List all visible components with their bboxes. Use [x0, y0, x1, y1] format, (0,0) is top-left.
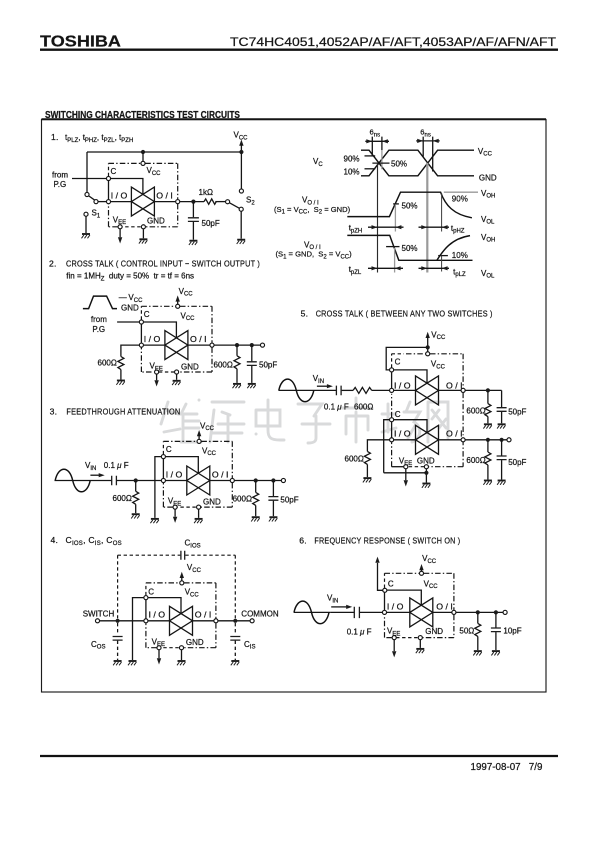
- junction at COS branch: [116, 619, 120, 623]
- wire: I/O pin to gate (circuit 2): [144, 344, 165, 346]
- wire: GND pin down (circuit 2): [176, 374, 178, 380]
- watermark char 市: [342, 398, 372, 442]
- ground below 50ohm resistor: [473, 651, 482, 655]
- pin O/I (circuit 3): [230, 478, 234, 482]
- wire: S2 lower contact to ground: [240, 212, 242, 239]
- watermark char 场: [382, 402, 420, 442]
- sine source (circuit 3): [55, 469, 93, 492]
- wire: VEE pin down (circuit 6): [393, 640, 395, 651]
- pin GND (circuit 5): [424, 465, 428, 469]
- svg-text:50%: 50%: [391, 159, 407, 168]
- VEE arrow (circuit 4): [157, 658, 161, 664]
- sine source (circuit 6): [294, 601, 331, 624]
- wire: O/I to COMMON terminal: [218, 620, 250, 622]
- transmission gate U5B: [416, 425, 439, 454]
- transmission gate U2: [165, 331, 188, 360]
- svg-text:2.: 2.: [49, 259, 57, 269]
- wire: I/O 2 to 600ohm input branch: [367, 440, 389, 452]
- wire: O/I 2 to output terminal: [465, 439, 506, 441]
- resistor 600 ohm shunt (circuit 3): [133, 481, 139, 514]
- ground below GND pin: [139, 239, 148, 243]
- svg-text:COS: COS: [91, 640, 105, 651]
- svg-text:FREQUENCY RESPONSE ( SWITCH ON: FREQUENCY RESPONSE ( SWITCH ON ): [314, 536, 460, 546]
- svg-text:6ns: 6ns: [370, 128, 381, 139]
- svg-text:(S1 = GND, S2 = VCC): (S1 = GND, S2 = VCC): [276, 250, 353, 261]
- svg-text:C: C: [111, 167, 117, 176]
- svg-text:GND: GND: [147, 217, 165, 226]
- svg-text:from: from: [52, 171, 68, 180]
- IC box (dash-dot outline) circuit 5: [392, 354, 464, 467]
- svg-text:90%: 90%: [344, 154, 360, 163]
- ground below load resistor: [233, 384, 242, 388]
- tpZL measure: [349, 265, 403, 276]
- capacitor 50pF (circuit 3): [268, 481, 278, 517]
- wire: O/I 1 to loads: [465, 389, 501, 391]
- wire: control C1 to gate 1: [394, 370, 427, 383]
- svg-text:VCC: VCC: [234, 131, 249, 142]
- svg-text:O / I: O / I: [446, 430, 463, 439]
- wire: C pin to ground rail (circuit 3): [155, 457, 161, 518]
- svg-text:FEEDTHROUGH ATTENUATION: FEEDTHROUGH ATTENUATION: [66, 407, 180, 417]
- wire: rail to VCC pin: [142, 152, 144, 161]
- svg-text:VEE: VEE: [150, 362, 163, 373]
- svg-text:VOL: VOL: [481, 269, 495, 280]
- svg-text:VCC: VCC: [424, 579, 439, 590]
- wire: O/I to output node: [180, 201, 204, 203]
- wire: sine to coupling cap (circuit 6): [331, 611, 355, 613]
- pin VEE (circuit 2): [155, 370, 159, 374]
- svg-text:GND: GND: [121, 304, 139, 313]
- pin GND (circuit 2): [175, 370, 179, 374]
- pin VCC (circuit 2): [176, 304, 180, 308]
- transmission gate U1: [131, 187, 154, 216]
- pin VEE (circuit 4): [157, 646, 161, 650]
- resistor 600 ohm (input side): [118, 357, 124, 370]
- wire: GND pin down (circuit 6): [419, 640, 421, 648]
- watermark char 库: [210, 402, 244, 442]
- ground below S1: [82, 234, 91, 238]
- svg-text:VIN: VIN: [327, 594, 338, 605]
- svg-text:VEE: VEE: [113, 215, 126, 226]
- wire: C2 to ground link: [384, 420, 390, 473]
- wire: I/O pin to gate: [111, 201, 132, 203]
- svg-text:P.G: P.G: [54, 180, 67, 189]
- wire: SWITCH terminal to I/O: [100, 620, 144, 622]
- wire: GND pin down (circuit 4): [181, 650, 183, 660]
- pin C (circuit 6): [383, 588, 387, 592]
- resistor 600 ohm series (circuit 5): [353, 387, 372, 393]
- VEE arrow (circuit 5): [404, 480, 408, 486]
- svg-text:10%: 10%: [344, 168, 360, 177]
- svg-text:VCC: VCC: [202, 446, 217, 457]
- pin I/O (circuit 6): [382, 610, 386, 614]
- svg-text:I / O: I / O: [149, 611, 166, 620]
- 6ns rise time marker (first edge): [365, 128, 389, 170]
- svg-text:O / I: O / I: [446, 381, 463, 390]
- wire: S1 lower contact to ground: [85, 217, 87, 234]
- svg-text:SWITCH: SWITCH: [83, 610, 115, 619]
- gray VOH reference line (middle): [444, 191, 478, 193]
- capacitor 50pF load 1 (circuit 5): [497, 390, 507, 423]
- transmission gate U5A: [416, 376, 439, 405]
- VCC terminal (circuit 2): [176, 287, 194, 304]
- outer dashed measurement loop: [118, 555, 236, 634]
- svg-text:10%: 10%: [452, 251, 468, 260]
- 50% tick and label (middle rise): [393, 202, 417, 211]
- pin VCC (circuit 6): [419, 571, 423, 575]
- svg-text:0.1 μ F: 0.1 μ F: [347, 628, 372, 637]
- switch S1: [84, 192, 101, 219]
- VCC terminal (circuit 4): [180, 563, 202, 581]
- pin I/O (circuit 1): [106, 200, 110, 204]
- wire: I/O pin to gate (circuit 4): [148, 620, 169, 622]
- pin VCC (circuit 1): [141, 161, 145, 165]
- pin VCC (circuit 5): [426, 352, 430, 356]
- svg-text:CROSS TALK ( BETWEEN ANY TWO S: CROSS TALK ( BETWEEN ANY TWO SWITCHES ): [316, 308, 493, 318]
- capacitor 50pF (circuit 2): [247, 345, 257, 383]
- pin O/I (circuit 1): [176, 200, 180, 204]
- control arrow (switch on, C high): [375, 557, 379, 563]
- ground below load resistor (circuit 3): [251, 517, 260, 521]
- junction VCC to C link: [426, 345, 430, 349]
- svg-text:VIN: VIN: [85, 461, 96, 472]
- pin C1 (circuit 5): [390, 368, 394, 372]
- wire: VCC link to C pin 1: [386, 347, 428, 370]
- svg-text:VEE: VEE: [399, 456, 412, 467]
- svg-text:600Ω: 600Ω: [466, 406, 485, 415]
- svg-text:50pF: 50pF: [508, 458, 526, 467]
- VCC terminal (circuit 6): [419, 554, 436, 571]
- IC box (dash-dot outline) circuit 3: [163, 441, 232, 507]
- ground below shunt resistor (circuit 5): [363, 478, 372, 482]
- ground below GND pin (circuit 5): [422, 484, 431, 488]
- junction at VCC pin tap: [141, 150, 145, 154]
- pin C (circuit 4): [144, 596, 148, 600]
- transmission gate U4: [170, 606, 193, 635]
- svg-text:0.1 μ F: 0.1 μ F: [324, 402, 349, 411]
- svg-text:5.: 5.: [301, 308, 309, 318]
- output terminal (circuit 3): [281, 478, 285, 482]
- svg-text:VCC: VCC: [179, 287, 194, 298]
- svg-text:fin = 1MHZ duty = 50% tr = t: fin = 1MHZ duty = 50% tr = tf = 6ns: [66, 272, 194, 283]
- capacitor 0.1uF (circuit 5): [336, 386, 341, 396]
- watermark char 子: [298, 404, 330, 443]
- ground below C wire (circuit 4): [128, 661, 137, 665]
- capacitor COS: [113, 637, 123, 641]
- wire: resistor to ground (input side): [120, 370, 122, 380]
- svg-text:50%: 50%: [402, 202, 418, 211]
- pin GND (circuit 4): [179, 646, 183, 650]
- svg-text:tpHZ: tpHZ: [451, 224, 465, 235]
- junction at 50ohm load: [476, 610, 480, 614]
- ground below COS: [113, 661, 122, 665]
- svg-text:600Ω: 600Ω: [466, 456, 485, 465]
- wire: from P.G to C pin: [72, 178, 106, 180]
- wire: O/I to output terminal (circuit 6): [456, 611, 503, 613]
- junction at 50pF load 2: [500, 438, 504, 442]
- junction at CIS branch: [233, 619, 237, 623]
- pin VCC (circuit 3): [197, 439, 201, 443]
- junction GND / C2 link: [424, 471, 428, 475]
- wire: S1 pole to I/O pin: [98, 201, 106, 203]
- svg-text:6.: 6.: [299, 536, 307, 546]
- wire: gate to O/I 1 pin: [439, 389, 461, 391]
- svg-text:GND: GND: [181, 362, 199, 371]
- pin VEE (circuit 3): [173, 505, 177, 509]
- wire: resistor to I/O 1 (circuit 5): [372, 389, 390, 391]
- svg-text:I / O: I / O: [111, 192, 128, 201]
- wire: VEE pin to negative supply arrow: [119, 229, 121, 237]
- svg-text:VEE: VEE: [168, 497, 181, 508]
- svg-text:VCC: VCC: [185, 588, 200, 599]
- svg-text:S1: S1: [92, 209, 101, 220]
- output terminal (circuit 5): [507, 438, 511, 442]
- svg-text:GND: GND: [425, 627, 443, 636]
- pin I/O (circuit 2): [139, 343, 143, 347]
- svg-text:600Ω: 600Ω: [214, 360, 233, 369]
- svg-text:tpLZ: tpLZ: [453, 267, 466, 278]
- IC box (dash-dot outline) circuit 2: [141, 306, 212, 372]
- svg-text:I / O: I / O: [387, 602, 404, 611]
- VEE arrow (circuit 2): [154, 380, 158, 386]
- output terminal (circuit 2): [260, 343, 264, 347]
- pin C (circuit 1): [106, 176, 110, 180]
- wire: O/I to output terminal: [214, 344, 260, 346]
- wire: resistor to S2 pole: [215, 201, 225, 203]
- pin O/I (circuit 2): [210, 343, 214, 347]
- wire: control from C to gate (circuit 6): [387, 590, 422, 605]
- resistor 50 ohm load (circuit 6): [475, 612, 481, 650]
- ground below GND pin (circuit 4): [177, 661, 186, 665]
- footer rule: [40, 755, 558, 757]
- pin C (circuit 3): [161, 455, 165, 459]
- junction at 600ohm shunt: [134, 478, 138, 482]
- svg-text:COMMON: COMMON: [241, 610, 279, 619]
- capacitor 50pF load 2 (circuit 5): [497, 440, 507, 480]
- svg-text:O / I: O / I: [436, 602, 453, 611]
- svg-text:6ns: 6ns: [420, 128, 431, 139]
- svg-text:— VCC: — VCC: [119, 293, 143, 304]
- black vertical at recovery 10%: [441, 256, 443, 272]
- pin O/I (circuit 6): [452, 610, 456, 614]
- svg-text:C: C: [144, 310, 150, 319]
- wire: rail down to S1 upper contact: [86, 152, 88, 192]
- pin VCC (circuit 4): [180, 581, 184, 585]
- wire: control C2 to gate 2: [394, 420, 427, 433]
- wire: rail down to S2 upper contact: [240, 152, 242, 189]
- svg-text:4.: 4.: [51, 535, 59, 545]
- svg-text:GND: GND: [203, 497, 221, 506]
- IC box (dash-dot outline) circuit 4: [146, 583, 216, 648]
- wire: VEE pin down (circuit 2): [156, 374, 158, 380]
- wire: control from C to gate: [111, 179, 143, 195]
- vertical reference line at first input 50% crossing: [377, 163, 379, 272]
- svg-text:VOH: VOH: [481, 233, 495, 244]
- wire: COS to ground: [117, 641, 119, 660]
- svg-text:P.G: P.G: [92, 325, 105, 334]
- wire: gate to O/I pin: [154, 201, 175, 203]
- svg-text:10pF: 10pF: [503, 626, 521, 635]
- svg-text:I / O: I / O: [394, 430, 411, 439]
- svg-text:O / I: O / I: [156, 192, 173, 201]
- COMMON terminal: [250, 619, 254, 623]
- svg-text:VCC: VCC: [431, 360, 446, 371]
- VEE arrow (negative supply): [118, 237, 122, 243]
- wire: shunt resistor to ground (circuit 5): [366, 464, 368, 477]
- svg-text:1997-08-07 7/9: 1997-08-07 7/9: [471, 762, 543, 773]
- wire: cap to I/O pin (circuit 6): [360, 611, 382, 613]
- svg-text:TOSHIBA: TOSHIBA: [40, 34, 121, 51]
- svg-text:600Ω: 600Ω: [113, 494, 132, 503]
- wire: GND pin down: [142, 229, 144, 238]
- pin GND (circuit 3): [197, 505, 201, 509]
- wire: GND pin to ground: [425, 469, 427, 483]
- wire: VEE pin down (circuit 4): [158, 650, 160, 658]
- watermark char 维: [161, 400, 201, 442]
- input waveform VC with X transitions: [361, 150, 474, 176]
- VIN arrow (circuit 5): [317, 384, 333, 388]
- svg-text:600Ω: 600Ω: [354, 402, 373, 411]
- capacitor CIS: [230, 637, 240, 641]
- junction output node: [191, 200, 195, 204]
- VCC terminal (circuit 5): [426, 330, 446, 351]
- capacitor CIOS (in top dashed line): [181, 551, 185, 560]
- VIN arrow (circuit 3): [90, 473, 104, 477]
- IC box (dash-dot outline) circuit 6: [385, 573, 454, 637]
- svg-text:600Ω: 600Ω: [233, 494, 252, 503]
- pulse generator input label "from P.G": [52, 171, 68, 190]
- wire: VCC rail circuit 1: [87, 151, 241, 153]
- pin VEE (circuit 6): [392, 636, 396, 640]
- wire: gate to O/I pin (circuit 4): [193, 620, 214, 622]
- transmission gate U6: [410, 598, 433, 627]
- junction at 600ohm load: [235, 343, 239, 347]
- VCC terminal (circuit 1): [234, 131, 249, 153]
- SWITCH terminal: [95, 619, 99, 623]
- wire: C pin up to control-high arrow: [378, 563, 383, 590]
- svg-text:VCC: VCC: [181, 311, 196, 322]
- svg-text:600Ω: 600Ω: [98, 358, 117, 367]
- junction at 600ohm load 1: [486, 388, 490, 392]
- svg-text:CIOS, CIS, COS: CIOS, CIS, COS: [66, 535, 122, 547]
- pin I/O (circuit 4): [144, 619, 148, 623]
- resistor 600 ohm (load): [234, 345, 240, 383]
- svg-text:VC: VC: [313, 157, 323, 168]
- ground below GND pin (circuit 3): [194, 519, 203, 523]
- svg-text:50pF: 50pF: [259, 360, 277, 369]
- wire: control from C to gate (circuit 4): [148, 598, 181, 614]
- wire: VEE pin down (circuit 5): [405, 469, 407, 480]
- svg-text:VCC: VCC: [187, 563, 202, 574]
- pin O/I 2 (circuit 5): [461, 438, 465, 442]
- junction at 50pF load: [250, 343, 254, 347]
- svg-text:50pF: 50pF: [202, 219, 220, 228]
- 90% level label and leader: [344, 154, 376, 163]
- svg-text:600Ω: 600Ω: [345, 454, 364, 463]
- svg-text:O / I: O / I: [190, 335, 207, 344]
- wire: cap to I/O pin (circuit 3): [117, 480, 161, 482]
- pin GND (circuit 1): [141, 225, 145, 229]
- black vertical at decay start: [441, 193, 443, 232]
- ground below 50pF load 2: [497, 481, 506, 485]
- wire: CIS to ground: [234, 641, 236, 660]
- svg-text:50Ω: 50Ω: [459, 626, 474, 635]
- svg-text:O / I: O / I: [212, 471, 229, 480]
- ground below shunt resistor (circuit 3): [131, 514, 140, 518]
- capacitor 10pF (circuit 6): [491, 612, 501, 650]
- svg-text:(S1 = VCC, S2 = GND): (S1 = VCC, S2 = GND): [274, 205, 351, 216]
- ground below load resistor 2: [483, 481, 492, 485]
- svg-text:3.: 3.: [50, 407, 58, 417]
- wire: control from C to gate (circuit 3): [166, 457, 199, 474]
- ground below GND pin (circuit 6): [416, 649, 425, 653]
- junction at 50pF load (circuit 3): [271, 478, 275, 482]
- wire: from P.G to C pin (circuit 2): [117, 321, 139, 323]
- 50% level label and leader (input): [372, 159, 407, 168]
- pin VEE (circuit 1): [118, 225, 122, 229]
- svg-text:VOH: VOH: [481, 189, 495, 200]
- outer frame box: [42, 120, 547, 693]
- ground below input resistor: [116, 381, 125, 385]
- ground below 50pF load 1: [497, 424, 506, 428]
- svg-text:0.1 μ F: 0.1 μ F: [104, 461, 129, 470]
- watermark char 电: [256, 400, 284, 440]
- tpZH measure: [349, 224, 404, 235]
- svg-text:I / O: I / O: [394, 381, 411, 390]
- wire: C2 link joins GND net: [384, 472, 427, 474]
- wire: C pin to ground rail (circuit 4): [133, 598, 144, 660]
- ground below 50pF: [189, 241, 198, 245]
- wire: cap to series resistor (circuit 5): [342, 389, 354, 391]
- capacitor CL 50pF (circuit 1): [188, 202, 199, 240]
- pin C (circuit 2): [139, 320, 143, 324]
- svg-text:tpZH: tpZH: [349, 224, 363, 235]
- svg-text:VEE: VEE: [152, 637, 165, 648]
- transmission gate U3: [187, 466, 210, 495]
- 10% level label and leader: [344, 168, 376, 177]
- svg-text:C: C: [166, 445, 172, 454]
- middle output waveform rising then high-Z decay: [347, 192, 472, 218]
- junction at 600ohm load 2: [486, 438, 490, 442]
- wire: gate to O/I pin (circuit 6): [433, 611, 452, 613]
- ground below S2: [237, 240, 246, 244]
- pin I/O 2 (circuit 5): [390, 438, 394, 442]
- tpLZ measure: [419, 266, 467, 278]
- IC box (dash-dot outline) circuit 1: [109, 163, 178, 226]
- svg-text:VOL: VOL: [481, 215, 495, 226]
- vertical reference line at second input 50% crossing: [426, 163, 428, 273]
- bottom output waveform falling then high-Z recovery: [347, 235, 472, 260]
- svg-text:VCC: VCC: [478, 147, 493, 158]
- svg-text:VCC: VCC: [147, 166, 162, 177]
- capacitor 0.1uF (circuit 6): [354, 607, 359, 618]
- sine source (circuit 5): [279, 379, 316, 402]
- svg-text:CIS: CIS: [244, 640, 255, 651]
- svg-text:50pF: 50pF: [508, 407, 526, 416]
- svg-text:VIN: VIN: [313, 374, 324, 385]
- pin VEE (circuit 5): [404, 465, 408, 469]
- 10% tick and label (recovery): [438, 251, 468, 260]
- wire: I/O pin to gate (circuit 3): [166, 480, 187, 482]
- svg-text:from: from: [91, 315, 107, 324]
- ground below 50pF (circuit 2): [247, 384, 256, 388]
- tpHZ measure: [419, 224, 465, 235]
- svg-text:50%: 50%: [402, 244, 418, 253]
- capacitor 0.1uF (circuit 3): [112, 476, 117, 486]
- label from P.G (circuit 2): [91, 315, 107, 334]
- svg-text:C: C: [388, 579, 394, 588]
- svg-text:C: C: [148, 587, 154, 596]
